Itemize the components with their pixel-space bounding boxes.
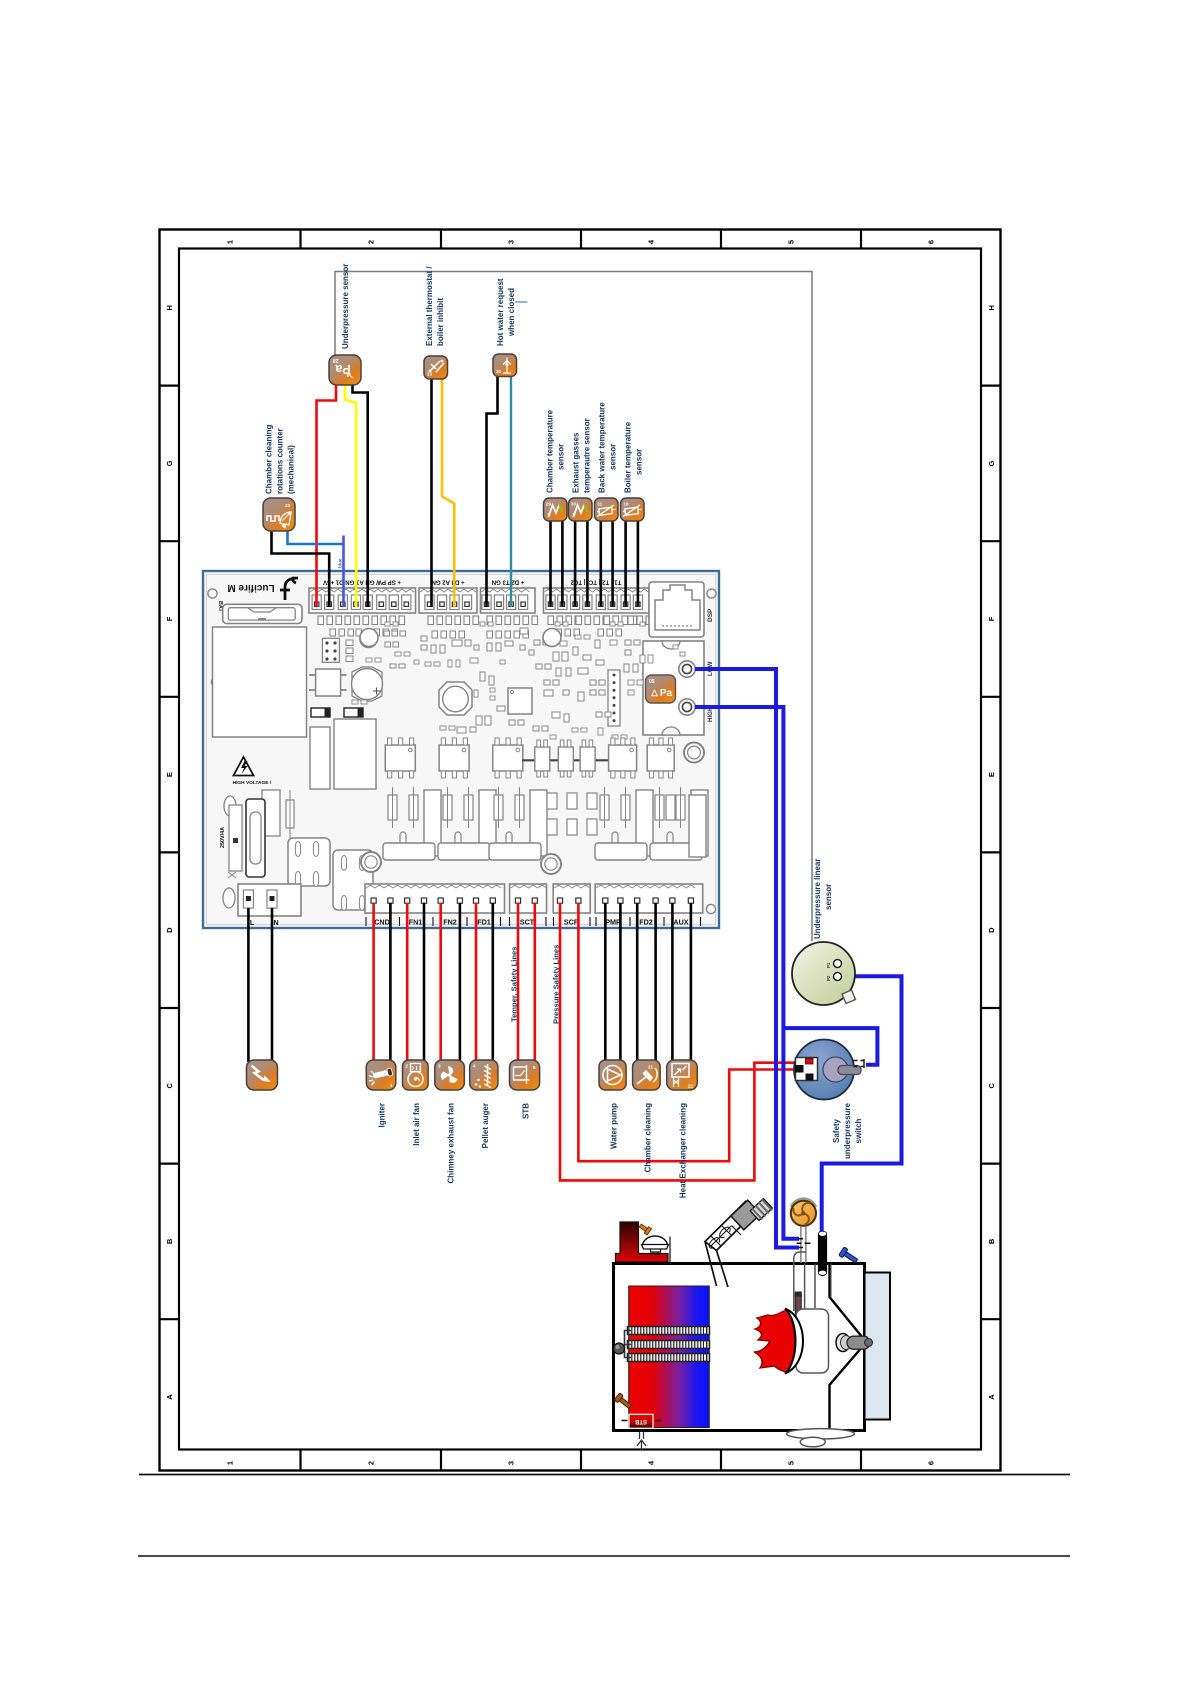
- svg-text:3: 3: [507, 240, 516, 244]
- auger lower tube into boiler: [705, 1242, 728, 1288]
- frame tick dividers bottom: [299, 1450, 301, 1471]
- svg-text:22: 22: [688, 1084, 694, 1089]
- underpressure linear sensor body: [792, 942, 855, 1005]
- svg-text:29: 29: [546, 502, 551, 507]
- cleaning cap dome: [643, 1236, 668, 1246]
- temperature sensor icon (30): [569, 498, 593, 521]
- switch contact block: [796, 1058, 818, 1081]
- wire blue branch to safety switch: [783, 1028, 877, 1065]
- crystal/regulator hexagon: [439, 682, 472, 715]
- STB pocket label: [629, 1414, 653, 1428]
- svg-text:SCF: SCF: [564, 918, 579, 927]
- svg-text:11: 11: [598, 502, 603, 507]
- svg-text:Boiler temperature: Boiler temperature: [624, 421, 633, 493]
- svg-text:G: G: [165, 460, 174, 466]
- optocoupler / driver IC row: [385, 745, 415, 771]
- svg-text:External thermostat /: External thermostat /: [425, 266, 434, 346]
- svg-text:(mechanical): (mechanical): [287, 445, 296, 494]
- hot water request icon (32): [493, 354, 517, 377]
- auger motor coupling striped: [750, 1198, 773, 1221]
- tall caps mid-left: [310, 727, 330, 789]
- svg-text:F: F: [987, 616, 996, 621]
- transformer windings bottom-left: [288, 838, 330, 886]
- svg-text:Igniter: Igniter: [378, 1103, 387, 1127]
- wire black D1 from rotation counter: [272, 529, 330, 607]
- tube connection dashes: [797, 1239, 811, 1248]
- svg-text:Back water temperature: Back water temperature: [598, 402, 607, 493]
- svg-text:Chamber temperature: Chamber temperature: [546, 409, 555, 493]
- svg-text:250V/4A: 250V/4A: [220, 827, 226, 848]
- flue pipe line: [669, 1237, 671, 1263]
- connector J3 (GN T3 D2 +): [481, 588, 536, 613]
- middle small grid: [547, 793, 557, 809]
- igniter rod in tube: [795, 1294, 801, 1318]
- svg-text:23: 23: [285, 503, 291, 508]
- svg-text:rotations counter: rotations counter: [276, 428, 285, 494]
- chimney stub: [616, 1222, 669, 1262]
- dashed contact mark: [854, 1059, 865, 1068]
- pad rows under top connectors: [318, 616, 324, 625]
- exhaust fan housing ring: [791, 1199, 816, 1207]
- svg-text:L: L: [250, 920, 255, 927]
- chimney screw: [638, 1222, 651, 1235]
- wire black GN from underpressure sensor: [353, 385, 368, 607]
- pellet auger icon (4): [470, 1060, 498, 1090]
- svg-text:Exhaust gasses: Exhaust gasses: [572, 432, 581, 493]
- measuring tube hook: [794, 1252, 806, 1311]
- svg-text:1: 1: [390, 1083, 393, 1088]
- svg-text:P2: P2: [826, 975, 831, 981]
- pads row B: [384, 631, 390, 636]
- output channel groups (resistors+relays): [388, 795, 397, 820]
- exhaust duct channel: [815, 1264, 831, 1309]
- heat exchanger cleaning icon (22): [667, 1060, 698, 1090]
- LOW port: [679, 661, 695, 677]
- svg-text:Water pump: Water pump: [610, 1103, 619, 1149]
- wires mains L N: [247, 908, 250, 1062]
- svg-text:Inlet air fan: Inlet air fan: [412, 1103, 421, 1146]
- pellet auger truss: [705, 1202, 756, 1251]
- svg-text:N: N: [273, 920, 278, 927]
- wire red SCF pressure safety line B: [578, 903, 796, 1161]
- svg-text:5: 5: [533, 1065, 536, 1070]
- drain vent symbol: [637, 1432, 646, 1449]
- svg-text:FN1: FN1: [409, 918, 423, 927]
- svg-text:D: D: [987, 927, 996, 933]
- combustion chamber wall: [830, 1264, 863, 1431]
- 6-pin header: [322, 638, 339, 662]
- boiler body: [614, 1264, 865, 1431]
- underpressure sensor icon (28): [329, 355, 361, 385]
- svg-text:switch: switch: [854, 1118, 863, 1143]
- svg-text:2: 2: [367, 240, 376, 244]
- svg-text:Underpressure sensor: Underpressure sensor: [341, 264, 350, 349]
- svg-text:B: B: [165, 1238, 174, 1244]
- connector SCT: [510, 884, 547, 913]
- wire orange from external thermostat: [442, 378, 454, 607]
- wires to output icons: [372, 903, 375, 1062]
- svg-text:+ SP PW GN A1 GN D1 +5V: + SP PW GN A1 GN D1 +5V: [322, 579, 401, 586]
- contact pin bottom: [806, 1074, 814, 1081]
- svg-text:P1: P1: [826, 962, 831, 968]
- svg-text:sensor: sensor: [824, 884, 833, 910]
- auger gearmotor: [731, 1200, 761, 1230]
- DSP RJ45 connector: [649, 582, 704, 637]
- boiler rear panel: [865, 1273, 891, 1420]
- wire red +5V from underpressure sensor: [317, 385, 337, 607]
- water pump icon: [599, 1060, 626, 1090]
- svg-text:1: 1: [226, 1461, 235, 1465]
- drawing frame inner border: [179, 249, 981, 1450]
- switch diaphragm: [823, 1057, 848, 1082]
- wires black temperature sensors: [549, 520, 552, 606]
- wire teal from hot water request: [510, 375, 512, 607]
- svg-text:B: B: [987, 1238, 996, 1244]
- svg-text:3: 3: [438, 1064, 441, 1069]
- svg-text:4: 4: [473, 1064, 476, 1069]
- svg-text:SCT: SCT: [520, 918, 535, 927]
- svg-text:E: E: [987, 772, 996, 777]
- wire blue from LOW port to boiler tube: [695, 669, 799, 1248]
- light blue callout dash: [515, 301, 528, 303]
- svg-text:05: 05: [649, 679, 655, 685]
- wire gray sense line from underpressure sensor to linear sensor: [335, 272, 812, 942]
- frame tick dividers top: [299, 230, 301, 249]
- wire black from hot water request: [487, 375, 498, 607]
- svg-text:30: 30: [571, 502, 576, 507]
- left edge ovals: [224, 796, 236, 816]
- coil terminal sphere: [614, 1343, 625, 1354]
- drawing frame outer border: [160, 230, 1001, 1471]
- svg-text:G: G: [987, 460, 996, 466]
- svg-text:Chamber cleaning: Chamber cleaning: [644, 1103, 653, 1172]
- wire red SCF pressure safety line A: [560, 903, 807, 1180]
- misc SMD parts: [390, 664, 396, 668]
- svg-text:FD2: FD2: [639, 918, 653, 927]
- igniter horn: [836, 1334, 850, 1352]
- heating coils: [628, 1327, 710, 1335]
- svg-text:Safety: Safety: [832, 1118, 841, 1143]
- HIGH VOLTAGE warning: [234, 757, 254, 776]
- blue screw: [839, 1247, 860, 1265]
- svg-text:2: 2: [406, 1064, 409, 1069]
- PCB board Lucifire M: [203, 571, 719, 928]
- contact pin red: [806, 1059, 814, 1065]
- footer rule: [138, 1555, 1070, 1557]
- connector J2 (GN A2 D3 +): [419, 588, 477, 613]
- PCB mounting holes: [208, 589, 217, 598]
- switch nozzle: [838, 1066, 861, 1075]
- svg-text:+ D3 A2 GN: + D3 A2 GN: [431, 579, 464, 586]
- temperature sensor icon (11): [595, 498, 619, 521]
- svg-text:Pa: Pa: [660, 688, 673, 699]
- svg-text:CND: CND: [374, 918, 390, 927]
- svg-text:Chamber cleaning: Chamber cleaning: [265, 425, 274, 494]
- svg-text:Chimney exhaust fan: Chimney exhaust fan: [447, 1103, 456, 1184]
- external thermostat icon (13): [424, 356, 448, 379]
- dPa icon on module: [646, 675, 676, 703]
- safety underpressure switch body: [794, 1040, 854, 1100]
- svg-text:H: H: [165, 305, 174, 310]
- connector SCF: [553, 884, 590, 913]
- contact pin left: [795, 1065, 804, 1073]
- right tall caps: [689, 795, 706, 857]
- connector L N mains: [238, 884, 301, 916]
- STB safety thermostat icon (5): [510, 1060, 540, 1090]
- wire blue linear sensor P2 loop to probe: [822, 976, 902, 1232]
- connector PMP FD2 AUX: [595, 884, 703, 913]
- wire light blue GN from rotation counter: [288, 529, 344, 544]
- sensor mounting tab: [842, 990, 856, 1004]
- connector CND FN1 FN2 FD1: [365, 884, 505, 913]
- flame: [754, 1310, 795, 1372]
- temperature sensor icon (29): [544, 498, 568, 521]
- svg-text:DSP: DSP: [707, 608, 714, 622]
- svg-text:6: 6: [927, 1461, 936, 1465]
- svg-text:F: F: [165, 616, 174, 621]
- svg-text:Temper. Safety Lines: Temper. Safety Lines: [510, 947, 519, 1022]
- vertical pin header right: [608, 670, 620, 726]
- svg-text:21: 21: [648, 1065, 654, 1070]
- burner crescent: [785, 1309, 803, 1374]
- triac trio with bus line: [522, 759, 624, 761]
- svg-text:C: C: [165, 1083, 174, 1089]
- svg-text:D: D: [165, 927, 174, 933]
- svg-text:when closed: when closed: [507, 288, 516, 337]
- svg-text:2: 2: [367, 1461, 376, 1465]
- HIGH port: [679, 699, 695, 715]
- svg-text:sensor: sensor: [609, 444, 618, 470]
- svg-text:Heat Exchanger cleaning: Heat Exchanger cleaning: [679, 1103, 688, 1198]
- fan suction stem: [801, 1226, 806, 1263]
- svg-text:PMP: PMP: [605, 918, 621, 927]
- svg-text:Pellet auger: Pellet auger: [481, 1103, 490, 1148]
- svg-text:A: A: [165, 1394, 174, 1400]
- boiler screw lower: [614, 1393, 633, 1411]
- frame tick dividers right: [981, 385, 1001, 387]
- bulk capacitor: [352, 667, 382, 701]
- bridge rectifier: [316, 669, 341, 696]
- svg-text:C: C: [987, 1083, 996, 1089]
- power transformer block: [213, 627, 307, 737]
- svg-text:5: 5: [787, 1461, 796, 1465]
- igniter icon (1): [366, 1060, 396, 1090]
- svg-text:6: 6: [927, 240, 936, 244]
- svg-text:HIGH VOLTAGE !: HIGH VOLTAGE !: [233, 780, 272, 786]
- exhaust fan: [791, 1201, 816, 1226]
- svg-text:Hot water request: Hot water request: [496, 278, 505, 346]
- mcu chip: [508, 688, 532, 714]
- heat exchanger gradient block: [629, 1286, 710, 1428]
- svg-text:FN2: FN2: [443, 918, 457, 927]
- chimney exhaust fan icon (3): [435, 1060, 465, 1090]
- connector J4 (TC2 TC1 T2 T1): [544, 588, 650, 613]
- svg-text:H: H: [987, 305, 996, 310]
- svg-text:5: 5: [787, 240, 796, 244]
- mid board rings: [360, 629, 378, 647]
- svg-text:Underpressure linear: Underpressure linear: [813, 859, 822, 939]
- svg-text:Lucifire M: Lucifire M: [227, 582, 274, 593]
- svg-text:28: 28: [333, 357, 339, 363]
- svg-text:sensor: sensor: [635, 449, 644, 475]
- svg-text:A: A: [987, 1394, 996, 1400]
- mid mounting rings: [361, 852, 381, 872]
- chamber cleaning rotations counter icon (23): [263, 498, 295, 531]
- coil link bracket: [625, 1331, 632, 1358]
- svg-text:FD1: FD1: [477, 918, 491, 927]
- svg-text:3: 3: [507, 1461, 516, 1465]
- frame tick dividers left: [160, 385, 180, 387]
- svg-text:temperautre sensor: temperautre sensor: [583, 418, 592, 493]
- chamber cleaning icon (21): [633, 1060, 661, 1090]
- svg-text:AUX: AUX: [673, 918, 688, 927]
- svg-text:+ D2 T3 GN: + D2 T3 GN: [492, 579, 525, 586]
- temperature sensor icon (10): [621, 498, 645, 521]
- burner chamber box: [796, 1309, 829, 1373]
- on-board differential pressure sensor module: [643, 641, 704, 735]
- wire yellow A1 from underpressure sensor: [345, 385, 356, 607]
- mains supply icon: [247, 1060, 278, 1090]
- svg-text:blue: blue: [338, 558, 343, 568]
- svg-text:underpressure: underpressure: [843, 1102, 852, 1159]
- diodes: [311, 708, 330, 717]
- svg-text:boiler inhibit: boiler inhibit: [436, 298, 445, 346]
- port P1: [834, 960, 842, 968]
- svg-text:sensor: sensor: [557, 444, 566, 470]
- underpressure probe black bar: [818, 1232, 827, 1276]
- wire blue from HIGH port to boiler tube: [695, 707, 799, 1239]
- svg-text:10: 10: [624, 502, 629, 507]
- extra small parts: [425, 662, 431, 666]
- svg-text:STB: STB: [522, 1103, 531, 1119]
- svg-text:Pressure Safety Lines: Pressure Safety Lines: [552, 945, 561, 1024]
- port P2: [834, 973, 842, 981]
- connector J1 (+5V D1 GN A1 GN PW SP +): [309, 588, 416, 613]
- page rule under frame: [139, 1474, 1070, 1476]
- small parts cluster A: [346, 640, 353, 646]
- boiler feet: [787, 1429, 855, 1439]
- svg-text:1: 1: [226, 240, 235, 244]
- inductor circle: [360, 630, 377, 647]
- wire black from external thermostat: [430, 378, 433, 607]
- svg-text:E: E: [165, 772, 174, 777]
- inlet air fan icon (2): [403, 1060, 429, 1090]
- svg-text:32: 32: [496, 369, 502, 374]
- resistor column left: [262, 790, 280, 836]
- svg-text:STB: STB: [634, 1418, 647, 1424]
